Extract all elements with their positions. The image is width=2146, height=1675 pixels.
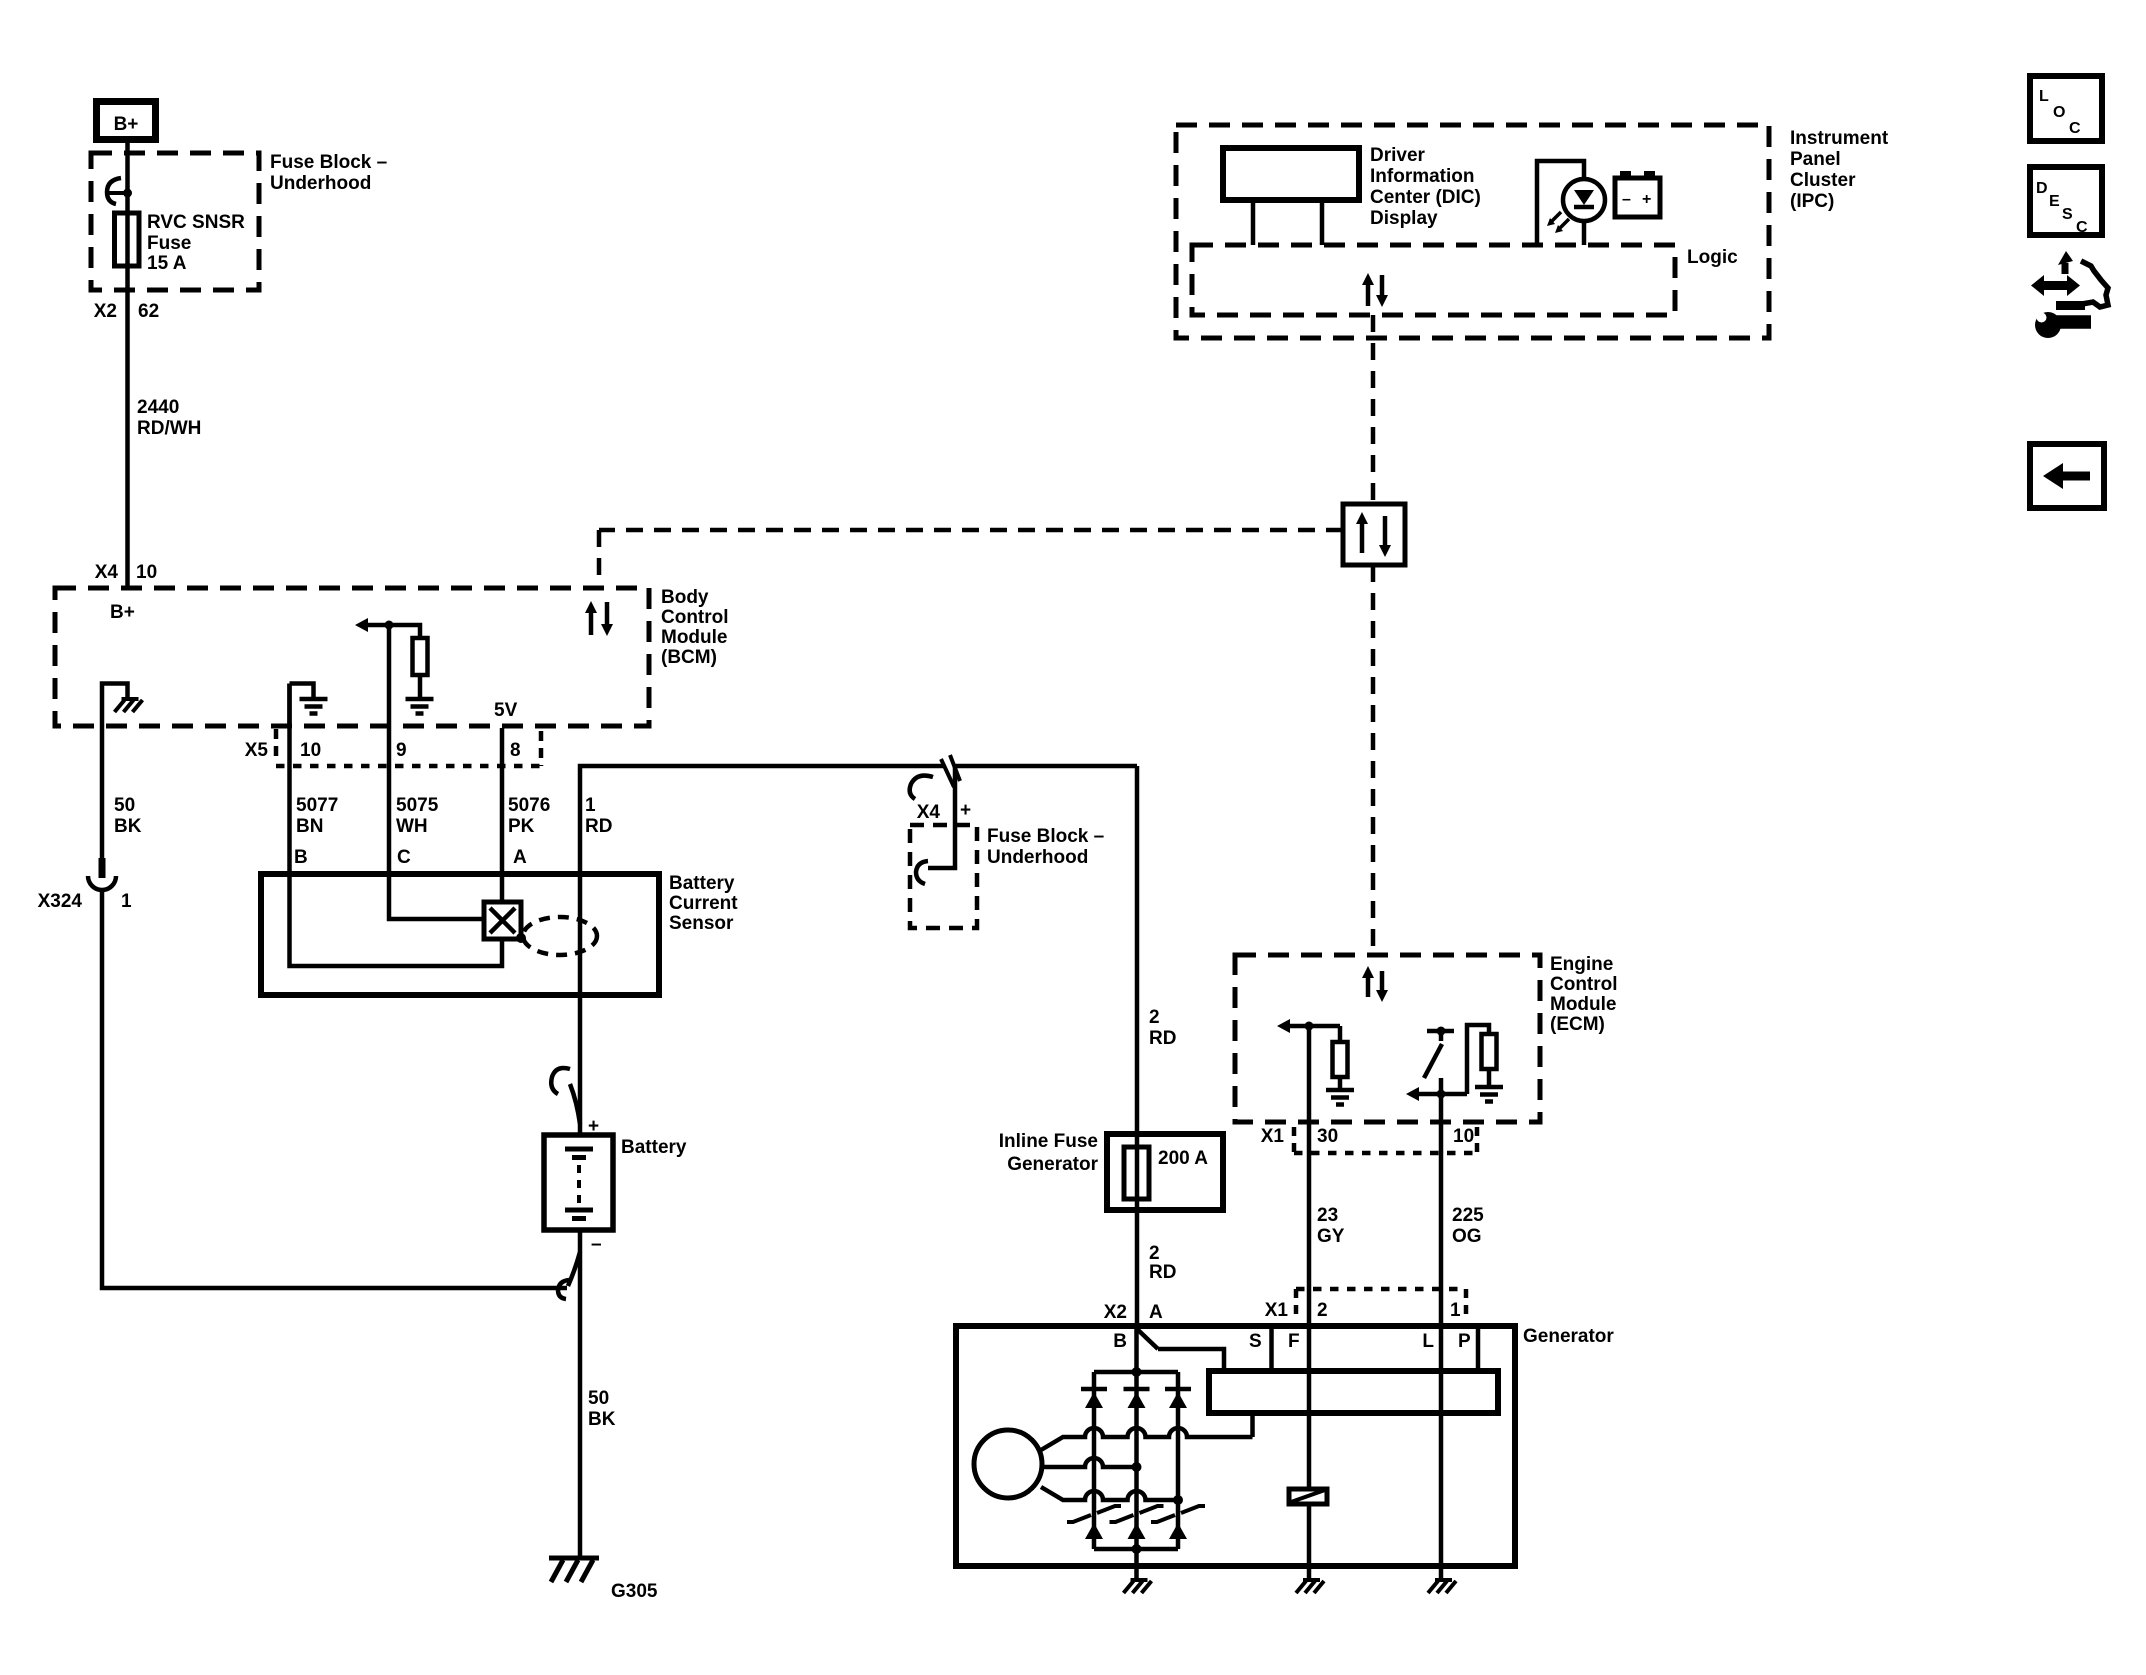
svg-text:BN: BN [296, 816, 323, 837]
svg-text:1: 1 [121, 891, 132, 912]
label Fuse Block Underhood [270, 152, 387, 194]
terminal cells S F [1249, 1326, 1300, 1371]
wire 50 BK from X324 joining battery negative [102, 891, 567, 1288]
wire F coil to ground [1307, 1504, 1312, 1579]
svg-text:Module: Module [661, 627, 728, 648]
ground generator B [1124, 1580, 1152, 1593]
svg-text:BK: BK [114, 816, 142, 837]
stator winding phase 1 [1041, 1428, 1253, 1450]
label 5077 BN [296, 795, 338, 837]
svg-text:–: – [1622, 191, 1631, 208]
wire serial data IPC to gateway (dashed) [1371, 315, 1376, 504]
svg-text:GY: GY [1317, 1226, 1345, 1247]
svg-text:15 A: 15 A [147, 253, 187, 274]
svg-text:PK: PK [508, 816, 535, 837]
terminal clip below battery negative [558, 1252, 580, 1299]
svg-text:Panel: Panel [1790, 149, 1841, 170]
wire 2 RD (fuse block to generator B) [1135, 766, 1140, 1329]
svg-text:Underhood: Underhood [270, 173, 371, 194]
svg-text:S: S [2062, 206, 2073, 223]
ECM field monitor arrow and junction [1277, 1019, 1340, 1033]
svg-text:Generator: Generator [1523, 1326, 1614, 1347]
svg-text:5V: 5V [494, 700, 518, 721]
svg-text:10: 10 [1453, 1126, 1474, 1147]
svg-text:Generator: Generator [1007, 1154, 1098, 1175]
svg-text:(IPC): (IPC) [1790, 191, 1834, 212]
label 2 RD (above fuse) [1149, 1007, 1176, 1049]
diode rectifier negative middle [1110, 1506, 1164, 1539]
connector X2 pin A [1104, 1302, 1163, 1323]
terminal cells L P [1422, 1326, 1478, 1371]
svg-text:Driver: Driver [1370, 145, 1426, 166]
svg-text:5076: 5076 [508, 795, 550, 816]
diode rectifier positive right [1165, 1389, 1191, 1408]
node B+ label inside BCM [110, 602, 135, 623]
wire 1 RD battery cable (sensor to battery and fuse block) [580, 766, 944, 1135]
svg-text:B+: B+ [114, 114, 139, 135]
connector X1 (generator) pins 2 1 [1265, 1289, 1466, 1321]
svg-text:S: S [1249, 1331, 1262, 1352]
stator winding phase 2 [1042, 1458, 1142, 1472]
svg-text:23: 23 [1317, 1205, 1338, 1226]
BCM internal ground for pin X4-9 [102, 684, 143, 727]
node battery positive + [588, 1116, 599, 1137]
label Logic [1687, 247, 1738, 268]
label 5076 PK [508, 795, 550, 837]
svg-text:2: 2 [1149, 1007, 1160, 1028]
wire generator B to ground [1134, 1329, 1139, 1579]
svg-text:Sensor: Sensor [669, 913, 734, 934]
svg-text:X324: X324 [38, 891, 83, 912]
svg-text:X2: X2 [1104, 1302, 1127, 1323]
svg-text:Body: Body [661, 587, 709, 608]
svg-text:Inline Fuse: Inline Fuse [999, 1131, 1098, 1152]
switch ECM generator turn-on driver [1424, 1027, 1454, 1079]
label Engine Control Module (ECM) [1550, 954, 1618, 1035]
wire serial data gateway to ECM (dashed) [1371, 565, 1376, 955]
svg-text:2440: 2440 [137, 397, 179, 418]
label RVC SNSR Fuse 15 A [147, 212, 245, 274]
svg-text:5077: 5077 [296, 795, 338, 816]
svg-text:Control: Control [661, 607, 729, 628]
inline fuse generator 200 A box [1107, 1134, 1223, 1210]
connector X5 pins 10 9 8 [245, 729, 541, 766]
svg-text:Battery: Battery [621, 1137, 687, 1158]
svg-text:Control: Control [1550, 974, 1618, 995]
svg-text:C: C [2069, 120, 2081, 137]
terminal letters B C A [294, 847, 527, 868]
svg-text:X1: X1 [1261, 1126, 1285, 1147]
ground generator L [1428, 1580, 1456, 1593]
label Battery [621, 1137, 687, 1158]
svg-text:Center (DIC): Center (DIC) [1370, 187, 1481, 208]
label Battery Current Sensor [669, 873, 738, 934]
label Inline Fuse Generator [999, 1131, 1099, 1175]
terminal B [1113, 1329, 1158, 1352]
wire 5075 WH (pin X5-9 to sensor C) [389, 625, 484, 919]
svg-text:200 A: 200 A [1158, 1148, 1208, 1169]
svg-text:E: E [2049, 193, 2060, 210]
svg-text:10: 10 [300, 740, 321, 761]
wire B sense to regulator [1158, 1349, 1224, 1371]
svg-text:30: 30 [1317, 1126, 1338, 1147]
label 50 BK (upper) [114, 795, 142, 837]
svg-text:B: B [1113, 1331, 1127, 1352]
ECM turn-on signal arrow and junction [1406, 1087, 1467, 1101]
resistor BCM pull-up [389, 625, 428, 697]
svg-text:50: 50 [114, 795, 135, 816]
label 225 OG [1452, 1205, 1484, 1247]
svg-text:C: C [2076, 219, 2088, 236]
svg-text:Logic: Logic [1687, 247, 1738, 268]
svg-text:X2: X2 [94, 301, 117, 322]
instrument panel cluster IPC (dashed box) [1176, 125, 1769, 338]
rectifier bridge rails [1094, 1367, 1178, 1554]
svg-text:X4: X4 [95, 562, 119, 583]
icon LOC button [2030, 76, 2102, 141]
ECM serial data arrows [1362, 966, 1388, 1002]
svg-text:F: F [1288, 1331, 1300, 1352]
icon back arrow button [2030, 444, 2104, 508]
svg-text:A: A [513, 847, 527, 868]
svg-text:B: B [294, 847, 308, 868]
body control module BCM (dashed box) [55, 588, 649, 726]
label Body Control Module (BCM) [661, 587, 729, 668]
fuse RVC SNSR 15 A [115, 213, 140, 266]
svg-text:Fuse Block –: Fuse Block – [987, 826, 1104, 847]
svg-text:Display: Display [1370, 208, 1438, 229]
wire 5076 PK (pin X5-8 to sensor A) [500, 728, 505, 902]
DIC display box [1223, 148, 1359, 245]
battery telltale icon [1615, 171, 1660, 217]
svg-text:2: 2 [1149, 1243, 1160, 1264]
generator box [956, 1326, 1515, 1566]
wire 50 BK (BCM X4-9 to X324) [100, 726, 105, 858]
wire 23 GY (ECM X1-30 to generator F) [1307, 1026, 1312, 1489]
LED charge indicator [1537, 161, 1605, 245]
label 1 RD [585, 795, 612, 837]
wire 5077 BN (pin X5-10 to sensor B) [290, 684, 503, 966]
svg-text:10: 10 [136, 562, 157, 583]
svg-text:L: L [2039, 88, 2049, 105]
svg-text:G305: G305 [611, 1581, 658, 1602]
svg-text:8: 8 [510, 740, 521, 761]
svg-text:RD: RD [1149, 1028, 1176, 1049]
fuse block underhood (small dashed box) [910, 825, 977, 928]
svg-text:BK: BK [588, 1409, 616, 1430]
field coil on F wire [1289, 1489, 1327, 1504]
rotor [974, 1430, 1042, 1498]
svg-text:+: + [1642, 191, 1651, 208]
svg-text:OG: OG [1452, 1226, 1482, 1247]
svg-text:Module: Module [1550, 994, 1617, 1015]
connector X2 pin 62 [94, 301, 159, 322]
wire into underhood fuse block [916, 766, 1137, 884]
label 2440 RD/WH [137, 397, 201, 439]
svg-text:+: + [960, 800, 971, 821]
ground ECM turn-on resistor [1475, 1087, 1503, 1102]
connector X1 (ECM) pins 30 10 [1261, 1126, 1477, 1153]
svg-text:WH: WH [396, 816, 428, 837]
svg-text:O: O [2053, 104, 2065, 121]
svg-text:225: 225 [1452, 1205, 1484, 1226]
ground G305 [549, 1558, 658, 1602]
svg-text:9: 9 [396, 740, 407, 761]
label Fuse Block Underhood (right) [987, 826, 1104, 868]
label Generator [1523, 1326, 1614, 1347]
svg-text:Engine: Engine [1550, 954, 1613, 975]
svg-text:X1: X1 [1265, 1300, 1289, 1321]
diode rectifier positive left [1081, 1389, 1107, 1408]
icon DESC button [2030, 167, 2102, 236]
voltage regulator box [1209, 1371, 1498, 1413]
label 5075 WH [396, 795, 439, 837]
svg-text:2: 2 [1317, 1300, 1328, 1321]
svg-text:B+: B+ [110, 602, 135, 623]
svg-text:A: A [1149, 1302, 1163, 1323]
svg-text:Current: Current [669, 893, 738, 914]
engine control module ECM (dashed box) [1235, 955, 1540, 1122]
svg-text:RVC SNSR: RVC SNSR [147, 212, 245, 233]
BCM serial data arrows [585, 601, 613, 636]
svg-text:1: 1 [1450, 1300, 1461, 1321]
stator winding phase 3 [1041, 1487, 1183, 1505]
terminal clip above battery positive [551, 1068, 580, 1124]
svg-text:Fuse: Fuse [147, 233, 191, 254]
ground generator F [1296, 1580, 1324, 1593]
wire 50 BK battery negative to G305 [578, 1230, 583, 1557]
gateway data box [1343, 504, 1405, 565]
icon vehicle data exchange [2031, 251, 2108, 338]
ground ECM field sense resistor [1326, 1090, 1354, 1105]
node B+ battery positive voltage terminal [97, 102, 156, 140]
BCM internal ground for pin X5-10 [290, 684, 328, 727]
svg-text:1: 1 [585, 795, 596, 816]
svg-text:RD: RD [585, 816, 612, 837]
svg-text:Fuse Block –: Fuse Block – [270, 152, 387, 173]
ground BCM resistor [406, 699, 434, 714]
diode rectifier positive middle [1124, 1389, 1150, 1408]
svg-text:(ECM): (ECM) [1550, 1014, 1605, 1035]
battery current sensor box [261, 874, 659, 995]
svg-text:(BCM): (BCM) [661, 647, 717, 668]
label 2 RD (below fuse) [1149, 1243, 1176, 1283]
connector X4 pin 10 [95, 562, 157, 583]
svg-text:Battery: Battery [669, 873, 735, 894]
battery [544, 1135, 613, 1230]
connector X324 pin 1 [38, 858, 132, 912]
label Instrument Panel Cluster (IPC) [1790, 128, 1889, 212]
logic serial data arrows [1362, 273, 1388, 307]
svg-text:Cluster: Cluster [1790, 170, 1856, 191]
svg-text:5075: 5075 [396, 795, 439, 816]
logic box (dashed) [1192, 245, 1675, 315]
svg-text:Instrument: Instrument [1790, 128, 1889, 149]
svg-text:X5: X5 [245, 740, 269, 761]
hall element (X box) [484, 902, 526, 943]
svg-text:C: C [397, 847, 411, 868]
sense loop (dashed ellipse) around battery cable [523, 917, 597, 955]
label 23 GY [1317, 1205, 1345, 1247]
BCM signal arrow and junction on sensor signal line [355, 618, 394, 632]
svg-text:50: 50 [588, 1388, 609, 1409]
label Driver Information Center (DIC) Display [1370, 145, 1481, 229]
wire 225 OG (ECM X1-10 to generator L) [1439, 1078, 1444, 1579]
fuse block underhood (dashed box) [91, 153, 259, 290]
wire stator phase to regulator [1250, 1413, 1255, 1437]
svg-text:X4: X4 [917, 802, 941, 823]
node battery negative - [591, 1234, 602, 1255]
inline connector X4 + at fuse block [910, 755, 971, 823]
svg-text:L: L [1422, 1331, 1434, 1352]
terminal clip on fuse feed [107, 178, 132, 204]
wire serial data gateway to BCM (dashed) [599, 530, 1343, 588]
svg-text:RD: RD [1149, 1262, 1176, 1283]
svg-text:D: D [2036, 180, 2048, 197]
label 50 BK (battery negative) [588, 1388, 616, 1430]
node 5V reference label [494, 700, 518, 721]
svg-text:–: – [591, 1234, 602, 1255]
diode rectifier negative right [1151, 1506, 1205, 1539]
svg-text:Information: Information [1370, 166, 1475, 187]
resistor ECM pull-up (field sense) [1333, 1026, 1348, 1088]
svg-text:Underhood: Underhood [987, 847, 1088, 868]
diode rectifier negative left [1067, 1506, 1121, 1539]
wire 2440 RD/WH from B+ through fuse to BCM [125, 140, 130, 588]
svg-text:P: P [1458, 1331, 1471, 1352]
resistor ECM turn-on pull [1467, 1025, 1497, 1094]
svg-text:62: 62 [138, 301, 159, 322]
svg-text:RD/WH: RD/WH [137, 418, 201, 439]
